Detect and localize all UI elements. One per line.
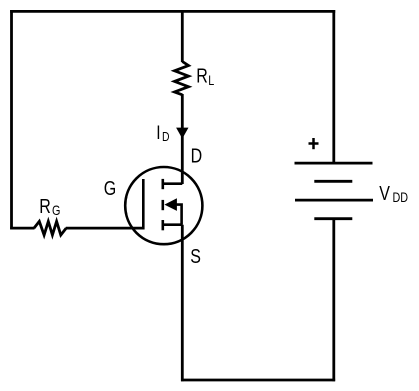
wire left rail bbox=[10, 10, 13, 229]
transistor Q1 body arrow bbox=[164, 198, 177, 211]
resistor RG bbox=[34, 221, 66, 235]
transistor Q1 body-to-source link bbox=[177, 205, 182, 225]
wire top rail bbox=[10, 10, 335, 13]
svg-text:S: S bbox=[190, 245, 201, 267]
wire bottom rail bbox=[181, 379, 335, 382]
label + (battery positive) bbox=[309, 138, 319, 149]
wire right rail bottom bbox=[332, 219, 335, 382]
svg-text:G: G bbox=[104, 177, 116, 199]
transistor Q1 drain tick bbox=[163, 182, 183, 185]
transistor Q1 channel segment top bbox=[162, 179, 165, 189]
transistor Q1 channel segment middle bbox=[162, 200, 165, 210]
transistor Q1 body circle bbox=[125, 167, 202, 244]
battery V1 plate 4 short bbox=[314, 217, 352, 220]
wire right rail top bbox=[332, 10, 335, 163]
wire source segment bbox=[181, 225, 184, 382]
current arrow ID bbox=[176, 128, 188, 139]
wire drain mid segment bbox=[181, 94, 184, 184]
wire gate left segment bbox=[10, 227, 34, 230]
wire gate right segment bbox=[66, 227, 145, 230]
transistor Q1 channel segment bottom bbox=[162, 220, 165, 230]
wire drain top segment bbox=[181, 10, 184, 62]
battery V1 plate 1 long bbox=[295, 162, 373, 165]
battery V1 plate 3 long bbox=[295, 199, 373, 202]
svg-text:D: D bbox=[191, 145, 203, 167]
battery V1 plate 2 short bbox=[314, 180, 352, 183]
transistor Q1 source tick bbox=[163, 223, 183, 226]
transistor Q1 gate bar bbox=[142, 179, 145, 229]
resistor RL bbox=[175, 62, 189, 95]
